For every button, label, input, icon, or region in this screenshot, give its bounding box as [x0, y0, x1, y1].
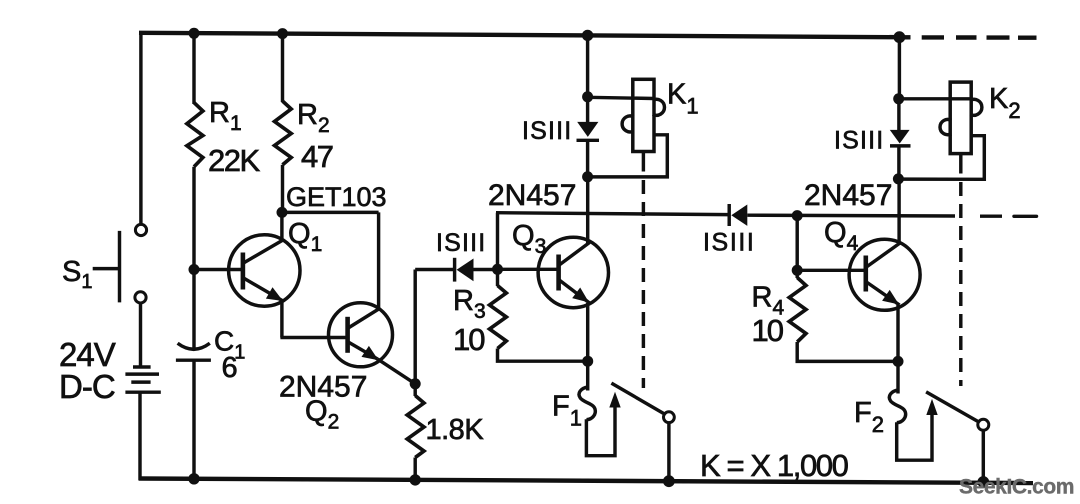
node: D2/Q4 base top dot — [792, 210, 803, 221]
wire: GET103 node to Q2 collector (horizontal) — [282, 211, 379, 214]
diode D2 1S111 cathode bar — [727, 204, 730, 226]
transistor Q4 collector stroke — [866, 243, 900, 267]
wire: battery to bottom bus — [138, 392, 141, 480]
switch S1 actuator stem — [93, 267, 120, 270]
node: R3/emitter junction dot — [582, 356, 593, 367]
node: K1 bottom tap dot — [582, 171, 593, 182]
wire: Q3 collector up to K1 bottom node — [586, 178, 589, 243]
wire: D4 to K2 bottom tap — [897, 146, 900, 181]
wire: F1 bottom elbow — [586, 404, 615, 456]
transistor Q1 collector stroke — [244, 240, 284, 263]
relay K2 coil top lead — [899, 97, 972, 100]
wire: left edge from top bus down to S1 — [139, 31, 142, 224]
transistor Q1 GET103 circle — [229, 235, 300, 306]
svg-text:6: 6 — [222, 352, 238, 384]
node: Q2 emitter / 1.8K dot — [410, 378, 421, 389]
fuse F2 heater S-curve — [889, 390, 905, 423]
wire: Q2 collector vertical — [377, 212, 380, 310]
wire: R3 bottom elbow — [498, 349, 590, 362]
capacitor C1 straight plate — [176, 358, 211, 361]
wire: F2 bottom elbow — [897, 411, 932, 460]
svg-text:SeekIC.com: SeekIC.com — [959, 476, 1074, 499]
wire: to D1 anode — [415, 268, 453, 271]
relay K2 body rectangle — [950, 82, 971, 154]
wire: top bus to R1 — [192, 32, 195, 104]
wire: D1 to Q3 base node — [474, 268, 498, 271]
node: bottom bus dot at F2 switch — [977, 476, 989, 488]
wire: C1 to bottom bus — [192, 360, 195, 481]
switch S1 bottom contact — [135, 292, 146, 303]
node: Q3 base node dot — [492, 264, 503, 275]
wire: Q3 base lead — [498, 268, 558, 271]
switch S1 top contact — [135, 224, 146, 235]
wire: Q1 base lead — [194, 268, 241, 271]
capacitor C1 curved plate — [178, 343, 210, 349]
wire: bottom ground bus — [139, 479, 1033, 484]
transistor Q1 emitter stroke — [244, 278, 284, 301]
transistor Q2 base bar — [345, 317, 350, 353]
svg-text:ISIII: ISIII — [834, 127, 884, 155]
node: Q4 base node dot — [792, 265, 803, 276]
wire: Q2 emitter node up to D1 — [413, 270, 416, 384]
node: K2 top tap dot — [893, 93, 904, 104]
relay K1 coil left loop — [622, 116, 634, 132]
node: bottom bus dot at F1 switch — [663, 475, 675, 487]
relay K1 armature stub — [642, 152, 645, 172]
node: top bus dot at K1 — [582, 30, 593, 41]
svg-text:2N457: 2N457 — [488, 179, 576, 212]
switch contact circle at F2 — [978, 419, 989, 430]
wire: coupling line to D2 — [496, 213, 728, 215]
fuse F1 heater S-curve — [579, 387, 595, 420]
node: bottom bus dot at 1.8K — [410, 474, 421, 485]
wire: top bus down to K2 top node — [898, 35, 901, 101]
transistor Q2 collector stroke — [348, 309, 379, 329]
switch blade at F2 — [926, 392, 983, 424]
wire: top bus dashed continuation — [900, 35, 1037, 40]
switch blade at F1 — [611, 383, 668, 416]
wire: K2 top tap to D4 — [897, 99, 900, 131]
svg-text:K = X 1,000: K = X 1,000 — [700, 448, 849, 483]
wire: 1.8K to bottom bus — [413, 458, 416, 482]
wire: R2 down to GET103 node — [281, 165, 284, 213]
transistor Q3 collector stroke — [559, 243, 589, 266]
relay K2 coil right loop — [970, 99, 982, 115]
svg-text:ISIII: ISIII — [703, 229, 755, 257]
node: Q1 base node dot — [189, 264, 200, 275]
resistor R3 10 — [490, 286, 507, 349]
transistor Q3 emitter stroke — [559, 280, 589, 303]
svg-text:10: 10 — [453, 322, 485, 357]
transistor Q2 2N457 circle — [329, 303, 393, 367]
relay K2 armature stub — [959, 154, 962, 174]
transistor Q3 emitter arrow — [572, 288, 589, 303]
svg-text:D-C: D-C — [59, 368, 115, 405]
svg-text:22K: 22K — [208, 143, 260, 178]
transistor Q1 base bar — [241, 253, 246, 290]
diode D4 1S111 cathode bar — [890, 144, 911, 147]
resistor R2 47 — [275, 101, 292, 165]
wire: S1 to battery — [139, 303, 142, 367]
wire: R1 down to C1 through base node — [192, 167, 195, 348]
wire: F1 contact to bottom bus — [667, 422, 670, 482]
transistor Q2 emitter arrow — [362, 346, 379, 360]
svg-text:47: 47 — [301, 139, 333, 174]
svg-text:ISIII: ISIII — [522, 117, 572, 145]
diode D1 1S111 cathode bar — [453, 258, 456, 282]
transistor Q4 emitter arrow — [882, 290, 899, 305]
wire: Q4 base lead — [797, 269, 864, 272]
relay K1 coil top lead — [588, 97, 654, 98]
svg-text:1.8K: 1.8K — [426, 414, 485, 446]
wire: top bus to R2 — [281, 32, 284, 102]
transistor Q1 emitter arrow — [266, 287, 283, 301]
transistor Q4 base bar — [863, 256, 868, 292]
wire: F2 contact to bottom bus — [982, 430, 985, 482]
battery B1 24V plates — [125, 367, 160, 392]
transistor Q3 circle — [538, 237, 608, 307]
wire: R4 bottom elbow — [797, 342, 899, 361]
switch S1 actuator bar — [118, 231, 121, 303]
resistor R4 10 — [789, 278, 806, 343]
diode D3 1S111 cathode bar — [577, 139, 600, 142]
wire: base node to R4 — [795, 270, 798, 278]
svg-text:GET103: GET103 — [286, 182, 387, 212]
diode D3 1S111 triangle — [577, 122, 598, 137]
node: K2 bottom tap dot — [893, 173, 904, 184]
resistor R1 22K — [187, 103, 203, 167]
transistor Q2 emitter stroke — [348, 342, 377, 359]
wire: Q1 emitter to Q2 base — [280, 336, 346, 339]
wire: Q3 base node up — [496, 213, 499, 271]
node: top bus dot at K2 — [894, 31, 906, 43]
relay K1 coil right loop — [653, 99, 665, 115]
wire: Q1 collector vertical — [280, 212, 283, 240]
relay K2 mechanical dashed link — [959, 182, 962, 386]
F2 actuator arrow head — [926, 399, 937, 415]
relay K1 bottom tap wire — [589, 135, 667, 177]
wire: down to Q4 base node — [795, 216, 798, 271]
resistor 1.8K — [407, 396, 424, 458]
svg-text:2N457: 2N457 — [804, 179, 892, 212]
node: bottom bus dot at C1 branch — [188, 473, 199, 484]
svg-text:ISIII: ISIII — [436, 229, 486, 257]
relay K1 mechanical dashed link — [642, 180, 645, 388]
relay K1 body rectangle — [633, 79, 654, 151]
wire: Q4 emitter down to F2 — [896, 305, 899, 394]
wire: top bus down to K1 top node — [586, 34, 589, 100]
node: top bus junction to R1 — [189, 28, 200, 39]
transistor Q4 emitter stroke — [866, 282, 899, 305]
node: top bus junction to R2 — [277, 28, 288, 39]
node: K1 top tap dot — [582, 91, 593, 102]
wire: node to 1.8K — [413, 384, 416, 396]
relay K2 coil left loop — [940, 120, 951, 135]
F1 actuator arrow head — [609, 392, 620, 408]
relay K2 bottom tap wire — [900, 136, 984, 180]
wire: coupling line right dashed continuation — [980, 214, 1037, 218]
wire: base node to R3 — [496, 269, 499, 286]
transistor Q3 base bar — [556, 255, 561, 291]
diode D1 1S111 triangle — [457, 259, 474, 282]
node: GET103 collector node dot — [277, 207, 288, 218]
switch contact circle at F1 — [664, 412, 675, 423]
diode D2 1S111 triangle — [731, 205, 747, 226]
wire: Q3 emitter down to F1 — [586, 303, 589, 391]
wire: Q4 collector up to K2 bottom node — [897, 179, 900, 244]
diode D4 1S111 triangle — [890, 130, 910, 144]
wire: D3 to K1 bottom tap — [586, 140, 589, 179]
node: R4/emitter junction dot — [893, 356, 904, 367]
wire: top +24V bus (solid part) — [139, 33, 900, 37]
wire: D2 to Q4 base node and beyond — [747, 213, 955, 217]
wire: Q1 emitter down — [280, 302, 283, 338]
transistor Q4 circle — [849, 239, 920, 310]
wire: K1 top tap to D3 — [586, 97, 589, 124]
wire: Q2 emitter diagonal to 1.8K node — [378, 359, 416, 384]
svg-text:10: 10 — [752, 313, 784, 348]
